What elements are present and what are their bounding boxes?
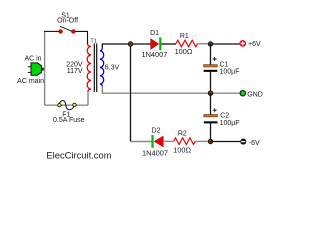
svg-text:On-Off: On-Off (57, 17, 78, 24)
transformer T1 primary winding (87, 44, 91, 92)
svg-text:100µF: 100µF (220, 69, 240, 76)
terminal +6V (240, 40, 246, 46)
wire fuse to primary bottom (87, 90, 89, 105)
wire C1 top lead (210, 44, 212, 65)
wire bottom rail corner to D2 (131, 141, 152, 143)
diode D1 anode triangle (151, 39, 159, 50)
svg-text:R2: R2 (178, 130, 187, 137)
svg-text:AC main: AC main (17, 78, 44, 85)
svg-text:T1: T1 (90, 38, 96, 44)
wire secondary top stub to rail (102, 44, 130, 47)
switch S1 pole dot right (72, 30, 76, 34)
svg-text:-6V: -6V (249, 140, 260, 147)
node junction C1 top (208, 42, 212, 46)
terminal +6V plus mark (241, 41, 245, 45)
capacitor C2 positive plate (204, 115, 218, 117)
wire GND rail (102, 92, 240, 94)
svg-text:ElecCircuit.com: ElecCircuit.com (46, 149, 111, 160)
svg-text:1N4007: 1N4007 (142, 148, 168, 157)
capacitor C2 negative plate (204, 121, 218, 123)
node junction GND rail (208, 91, 212, 95)
wire C2 bottom lead (210, 123, 212, 141)
svg-text:100µF: 100µF (220, 120, 240, 127)
wire AC bottom to fuse (45, 104, 88, 106)
svg-text:1N4007: 1N4007 (141, 50, 167, 59)
wire D1 to R1 (161, 43, 176, 45)
terminal -6V (241, 139, 246, 144)
AC plug prongs (28, 67, 31, 73)
terminal -6V minus mark (241, 141, 245, 143)
node junction bottom rail (208, 139, 212, 143)
transformer T1 secondary winding (100, 47, 104, 87)
node junction top (128, 42, 132, 46)
svg-text:D2: D2 (152, 128, 161, 135)
svg-text:GND: GND (247, 91, 263, 98)
terminal GND (240, 91, 245, 96)
diode D1 cathode bar (159, 38, 161, 51)
fuse F1 sine element (60, 101, 75, 110)
diode D2 cathode bar (151, 135, 153, 148)
wire AC left vertical (44, 31, 46, 105)
switch S1 pole dot left (59, 30, 63, 34)
capacitor C2 plus sign (213, 108, 217, 112)
svg-text:D1: D1 (150, 30, 159, 37)
transformer T1 core line right (96, 44, 98, 93)
svg-text:R1: R1 (180, 33, 189, 40)
resistor R2 zigzag (174, 138, 196, 145)
capacitor C1 positive plate (204, 65, 218, 67)
wire C2 top lead (210, 93, 212, 114)
svg-text:AC in: AC in (24, 56, 41, 63)
wire junction to -6V terminal (211, 141, 241, 143)
wire switch left segment (44, 30, 59, 32)
wire top rail junction to D1 (131, 43, 151, 45)
fuse F1 terminal dot left (58, 103, 61, 106)
svg-text:+6V: +6V (248, 41, 261, 48)
wire secondary bottom stub (101, 86, 103, 93)
svg-text:100Ω: 100Ω (173, 145, 191, 154)
svg-text:100Ω: 100Ω (175, 47, 193, 56)
svg-text:C2: C2 (220, 113, 229, 120)
wire C1 bottom lead (210, 72, 212, 93)
capacitor C1 plus sign (213, 57, 217, 61)
diode D2 anode triangle (154, 136, 163, 147)
wire junction to +6V terminal (211, 43, 240, 45)
AC plug body (31, 63, 42, 75)
capacitor C1 negative plate (204, 70, 218, 72)
AC plug cord tab (41, 68, 44, 71)
wire R2 to junction (195, 140, 210, 142)
wire D2 to R2 (163, 140, 173, 142)
switch S1 lever (60, 26, 73, 31)
wire junction vertical to bottom rail (130, 44, 132, 142)
transformer T1 core line left (93, 44, 95, 93)
wire R1 to junction (198, 43, 211, 45)
fuse F1 terminal dot right (73, 103, 76, 106)
wire switch right segment to primary top (75, 31, 88, 44)
svg-text:6.3V: 6.3V (105, 64, 120, 71)
svg-text:0.5A Fuse: 0.5A Fuse (53, 117, 85, 124)
svg-text:117V: 117V (67, 68, 83, 75)
resistor R1 zigzag (176, 40, 198, 47)
